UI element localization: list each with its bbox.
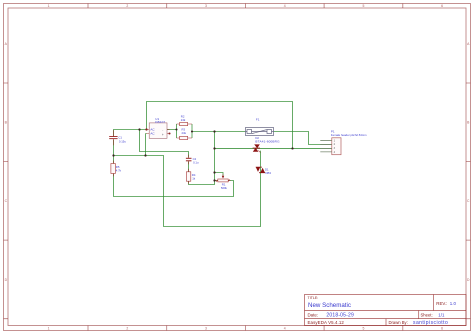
svg-text:DB3: DB3 [266,171,272,175]
svg-text:0.1u: 0.1u [193,161,199,165]
svg-text:DB107: DB107 [155,120,165,124]
svg-text:1: 1 [48,4,50,8]
svg-text:New Schematic: New Schematic [308,302,351,309]
svg-text:B: B [467,121,470,125]
svg-text:1: 1 [48,326,50,330]
svg-text:4.7k: 4.7k [116,168,122,172]
svg-text:0.15u: 0.15u [119,139,126,143]
svg-text:TITLE:: TITLE: [308,296,319,300]
svg-text:BTA41-600BRG: BTA41-600BRG [255,140,280,144]
svg-text:REV.:: REV.: [436,301,447,306]
svg-text:A: A [5,42,8,46]
svg-text:5: 5 [362,4,364,8]
svg-text:2018-05-29: 2018-05-29 [326,313,354,319]
svg-text:EasyEDA V5.4.12: EasyEDA V5.4.12 [308,320,345,325]
svg-text:F1: F1 [256,118,260,122]
svg-text:C: C [5,199,8,203]
svg-text:Drawn By:: Drawn By: [389,320,408,325]
svg-text:D: D [5,278,8,282]
svg-text:1.0: 1.0 [450,301,457,306]
svg-text:4: 4 [284,326,286,330]
svg-text:24k: 24k [181,118,186,122]
svg-text:B: B [5,121,8,125]
svg-text:500k: 500k [221,186,228,190]
svg-text:D: D [467,278,470,282]
svg-text:24k: 24k [182,131,187,135]
svg-text:A: A [467,42,470,46]
svg-text:-: - [162,128,163,132]
svg-text:4: 4 [284,4,286,8]
svg-text:3: 3 [205,4,207,8]
svg-text:Sheet:: Sheet: [421,312,433,317]
svg-text:+: + [162,133,164,137]
svg-text:Female header pitch2.54mm: Female header pitch2.54mm [331,133,367,137]
svg-text:3: 3 [205,326,207,330]
svg-text:1k: 1k [192,177,196,181]
svg-text:6: 6 [441,4,443,8]
svg-text:2: 2 [126,4,128,8]
svg-text:C: C [467,199,470,203]
svg-text:2: 2 [126,326,128,330]
svg-text:5: 5 [362,326,364,330]
svg-text:Date:: Date: [308,312,319,317]
svg-text:6: 6 [441,326,443,330]
svg-text:1/1: 1/1 [438,312,445,317]
svg-text:santipisciotto: santipisciotto [413,320,448,326]
